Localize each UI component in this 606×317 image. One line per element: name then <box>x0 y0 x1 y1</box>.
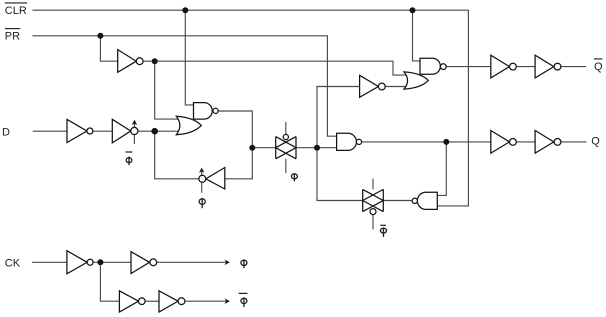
svg-text:CK: CK <box>5 257 21 269</box>
svg-text:D: D <box>2 126 10 138</box>
svg-text:Q: Q <box>591 136 600 148</box>
svg-text:Q: Q <box>594 61 603 73</box>
svg-text:PR: PR <box>5 31 20 43</box>
svg-text:CLR: CLR <box>5 5 27 17</box>
